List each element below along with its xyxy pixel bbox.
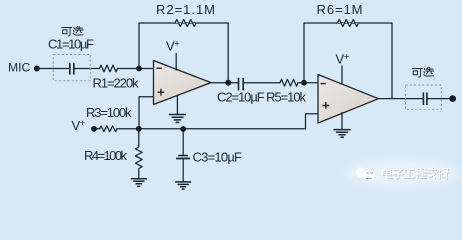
wire feedback loop 1: [139, 23, 228, 83]
svg-text:R4=100k: R4=100k: [84, 148, 128, 163]
label optional Cout (kexuan): [412, 67, 433, 77]
watermark haze: [345, 159, 459, 187]
wire node C to C2: [228, 82, 238, 84]
resistor R2: [175, 20, 196, 27]
svg-text:R1=220k: R1=220k: [93, 76, 140, 91]
ground U2: [341, 113, 343, 130]
wire bias rail V+: [96, 128, 306, 130]
plus U2: [323, 102, 330, 109]
op-amp U1: [154, 61, 212, 105]
capacitor Cout: [422, 93, 424, 104]
watermark text dianzi gongcheng zhuanji: [383, 168, 449, 179]
svg-text:+: +: [174, 38, 180, 49]
svg-text:+: +: [344, 52, 350, 63]
capacitor C2: [238, 78, 240, 89]
dashed box C1: [53, 55, 90, 81]
resistor R4: [135, 129, 142, 179]
node A (MIC): [34, 66, 40, 72]
capacitor C1: [69, 63, 71, 74]
wire R1 to node B: [118, 68, 154, 70]
ground R4: [131, 179, 146, 186]
svg-text:C2=10µF R5=10k: C2=10µF R5=10k: [217, 90, 307, 105]
node R4 junction: [136, 126, 142, 132]
resistor R3: [100, 126, 118, 132]
node V+ bias: [91, 126, 97, 132]
ground U1: [176, 96, 178, 115]
resistor R5: [280, 79, 298, 86]
node B: [136, 66, 142, 72]
label optional C1 (kexuan): [62, 26, 83, 36]
svg-text:+: +: [80, 118, 86, 129]
capacitor C3: [179, 155, 187, 157]
svg-text:C3=10µF: C3=10µF: [193, 149, 243, 164]
wire C3 branch: [182, 129, 184, 155]
minus U1: [157, 67, 162, 69]
plus U1: [158, 89, 165, 96]
wire V+ stem U1: [175, 54, 177, 71]
wire MIC input: [37, 68, 70, 70]
wire Cout to terminal: [427, 98, 452, 100]
node output terminal: [449, 95, 456, 102]
wire V+ stem U2: [341, 66, 343, 84]
wire R5 to node D: [298, 82, 318, 84]
svg-text:R6=1M: R6=1M: [317, 2, 363, 17]
resistor R1: [100, 65, 118, 72]
wire U1 noninverting input: [139, 97, 154, 129]
svg-text:MIC: MIC: [8, 61, 31, 75]
svg-text:R3=100k: R3=100k: [86, 105, 132, 120]
wire C3 to ground: [182, 159, 184, 182]
wire feedback loop 2: [304, 23, 392, 99]
resistor R6: [338, 20, 359, 27]
wire U2 output: [379, 98, 423, 100]
wire U2 noninverting input: [306, 114, 319, 129]
svg-text:C1=10µF: C1=10µF: [48, 37, 94, 52]
node D: [301, 80, 307, 86]
node C3 junction: [180, 126, 186, 132]
minus U2: [321, 83, 326, 85]
wire C1 to R1: [74, 68, 99, 70]
dashed box Cout: [406, 85, 442, 109]
wire C2 to R5: [244, 82, 280, 84]
op-amp U2: [318, 75, 379, 124]
svg-text:R2=1.1M: R2=1.1M: [156, 2, 215, 17]
watermark logo: [355, 166, 375, 180]
wire U1 output to node C: [211, 82, 228, 84]
ground C3: [176, 182, 191, 189]
node C: [225, 80, 231, 86]
